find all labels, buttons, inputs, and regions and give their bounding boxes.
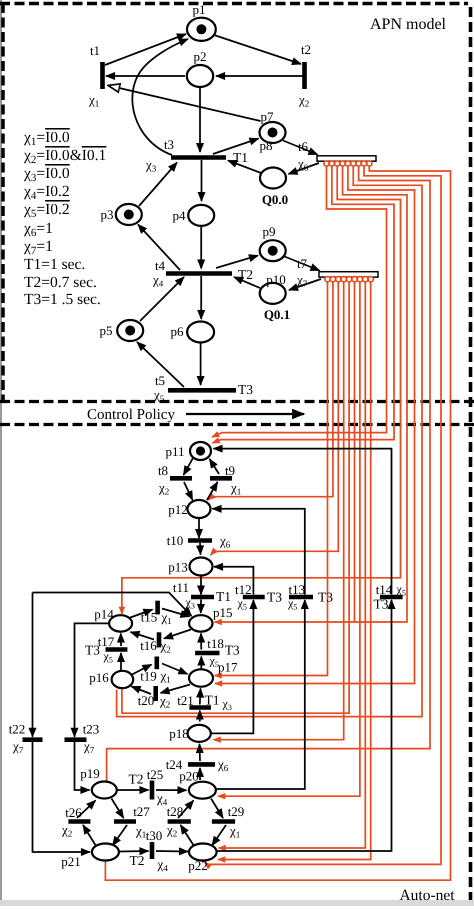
svg-text:p13: p13 [168,560,188,575]
svg-text:t10: t10 [167,533,184,548]
arc p14 to t15 [129,610,153,619]
svg-text:t16: t16 [140,638,157,653]
orange control wire from t7 output 5 [122,281,349,713]
svg-text:t29: t29 [228,804,245,819]
arc p14 to t23 [75,623,109,736]
place p9 [260,240,286,261]
parameter definitions text block [23,129,106,308]
transition t15 [155,601,160,615]
svg-text:t28: t28 [167,804,184,819]
orange control wire from t7 output 2 [208,281,333,500]
arc p13 to t11 [200,577,202,595]
svg-text:p16: p16 [89,670,109,685]
place p3 [116,204,142,225]
arc p20 to t29 [211,799,223,819]
place p8 [260,168,286,189]
svg-text:t6: t6 [298,139,309,154]
transition t22 [23,737,43,742]
transition t30 [150,842,155,859]
place p21 [92,844,119,861]
arc p6 to t5 [200,343,202,385]
transition t18 [195,651,219,656]
arc t28 to p20 [178,801,194,819]
svg-text:p20: p20 [179,769,199,784]
svg-text:p19: p19 [80,766,100,781]
arc p3 to t3 [139,163,177,207]
svg-text:T1=1 sec.: T1=1 sec. [24,256,85,273]
place p2 [187,65,213,87]
orange control wire from t7 output 3 [211,281,339,555]
arc p21 to t30 [120,850,149,853]
arc t23 to p19 [75,742,90,790]
place p17 [189,669,213,686]
arc t16 to p14 [131,632,155,640]
place p18 [188,725,211,742]
place p10 [260,283,286,304]
orange control wire from t6 output 9 [105,166,450,881]
transition t17 [106,647,128,652]
arc p17 to t18 [200,657,202,669]
transition t4 [166,271,232,276]
control policy dashed line upper [0,400,474,403]
svg-text:t4: t4 [155,258,166,273]
svg-text:χ6=1: χ6=1 [23,220,53,239]
arc t29 to p22 [212,825,226,846]
transition t28 [168,819,191,824]
arc t4 to p9 [216,256,258,269]
arc p1 to t2 [214,35,301,64]
transition t10 [188,538,212,543]
arc junction down to t22 [32,593,34,737]
svg-text:t26: t26 [65,805,82,820]
arc t24 to p18 [199,744,202,761]
transition t21 [189,705,211,710]
arc t3 to p1 curve [132,39,188,155]
arc t20 to p16 [132,687,152,695]
arc p12 to t10 [198,519,200,538]
place p12 [188,500,211,518]
place p14 [109,615,132,631]
arc p22 to t28 [181,825,195,846]
arc p2 to t1 [106,75,185,77]
orange control wire from t6 output 8 [205,166,442,865]
arc p15 to t16 [164,630,191,639]
svg-text:t3: t3 [164,137,174,152]
orange control wire from t7 output 8 [219,281,366,848]
place p7 [260,122,286,143]
svg-text:p15: p15 [213,605,233,620]
svg-text:p4: p4 [173,208,187,223]
transition t27 [114,819,136,824]
arc t26 to p19 [77,801,96,819]
svg-text:T3: T3 [85,643,100,658]
svg-text:t13: t13 [288,582,305,597]
control policy dashed line lower [0,423,474,426]
transition t1 [100,62,105,89]
transition t25 [150,781,155,800]
svg-text:t12: t12 [235,582,252,597]
svg-text:T1: T1 [216,589,231,604]
svg-text:T2=0.7 sec.: T2=0.7 sec. [24,274,97,291]
orange control wire from t7 output 1 [215,281,328,675]
arc t3 to p7 [213,139,259,155]
svg-text:t18: t18 [207,636,224,651]
svg-text:t30: t30 [146,828,163,843]
arc p9 to t7 [285,257,320,271]
svg-text:t20: t20 [138,693,155,708]
svg-text:t14: t14 [376,582,393,597]
arc t22 to p21 [33,742,91,852]
transition t3 [171,155,226,160]
arc t25 to p20 [156,789,187,791]
place p16 [112,671,134,688]
arc p7 to t1 inhibitor [109,86,261,122]
outer dashed border right [469,7,473,900]
svg-text:Q0.1: Q0.1 [264,307,290,322]
svg-text:p8: p8 [260,138,273,153]
svg-text:APN model: APN model [370,16,447,33]
svg-text:Q0.0: Q0.0 [262,192,288,207]
svg-text:p9: p9 [263,224,276,239]
svg-text:p1: p1 [193,2,206,17]
transition t8 [170,476,192,481]
svg-text:t22: t22 [9,722,26,737]
svg-text:T3=1 .5 sec.: T3=1 .5 sec. [24,291,101,308]
arc p17 to t20 [161,685,191,694]
transition t6 hollow bar [317,156,376,161]
figure gray bottom strip [0,900,474,906]
APN model dashed border top [0,2,468,6]
arc t9 to p11 [210,459,220,474]
arc p10 to t4 [234,277,260,288]
svg-text:p7: p7 [261,109,275,124]
arc p22 to t14 riser [217,600,392,851]
svg-text:t19: t19 [140,669,157,684]
svg-text:Control Policy: Control Policy [87,407,175,423]
svg-text:χ3=I0.0: χ3=I0.0 [23,165,70,184]
transition t19 [155,657,160,670]
arc t4 to p3 [138,225,180,271]
arc p20 to t13 riser [217,600,305,789]
arc t19 to p17 [162,664,188,675]
svg-text:p14: p14 [94,607,114,622]
arc t8 to p12 [184,482,193,500]
t7 output dots [325,277,330,282]
transition t2 [302,62,307,89]
orange control wire from t7 output 6 [354,281,356,622]
arc t5 to p5 [137,342,184,387]
arc p2 to t3 [199,88,201,152]
APN model dashed border left [1,3,5,401]
svg-text:t8: t8 [158,463,168,478]
place p19 [92,782,117,799]
svg-text:t1: t1 [90,43,100,58]
arc t18 to p15 [200,634,202,650]
svg-text:p18: p18 [169,726,189,741]
svg-text:T1: T1 [205,693,220,708]
svg-text:p2: p2 [194,49,207,64]
svg-text:χ7=1: χ7=1 [23,238,53,257]
orange control wire from t6 output 7 [107,166,430,781]
svg-text:T3: T3 [267,590,282,605]
place p6 [187,322,214,343]
svg-text:χ1=I0.0: χ1=I0.0 [23,129,70,148]
arc t14 to p11 riser [214,449,392,595]
svg-text:t21: t21 [177,693,194,708]
svg-text:T2: T2 [129,772,144,787]
arc p12 to t9 [207,482,218,500]
svg-text:p5: p5 [100,323,113,338]
transition t29 [212,819,235,824]
svg-text:t2: t2 [301,42,311,57]
arc t21 to p17 [199,689,202,705]
arc p19 to t25 [118,789,149,791]
arc t27 to p21 [113,825,128,846]
arc p20 to t24 [199,768,201,780]
transition t11 [191,595,214,600]
orange control wire from t7 output 7 [218,281,360,796]
orange control wire from t6 output 4 [215,166,408,623]
arc p16 to t19 [132,665,152,675]
arc p16 to t17 [120,653,122,670]
arc t2 to p2 [216,75,303,77]
svg-text:T2: T2 [130,853,145,868]
place p5 [117,320,143,341]
place p22 [189,844,217,861]
svg-text:p6: p6 [171,324,185,339]
orange control wire from t6 output 3 [122,166,401,615]
svg-text:p3: p3 [101,207,114,222]
svg-text:t9: t9 [225,463,235,478]
arc p5 to t4 [140,277,184,321]
svg-text:p21: p21 [61,854,81,869]
arc p18 to t21 [199,711,201,722]
svg-text:χ4=I0.2: χ4=I0.2 [23,183,70,202]
svg-text:t25: t25 [147,767,164,782]
place p13 [190,558,213,576]
place p4 [188,205,214,226]
orange control wire from t7 output 4 [214,281,344,740]
svg-text:T3: T3 [238,382,253,397]
orange control wire from t6 output 2 [213,166,395,444]
svg-text:t5: t5 [155,373,165,388]
arc t30 to p22 [156,850,188,853]
t6 output dots [324,161,329,166]
orange control wire from t7 output 9 [218,281,371,859]
svg-text:t15: t15 [141,610,158,625]
control policy arrow [186,413,304,415]
arc t3 to p4 [201,160,203,201]
svg-text:p12: p12 [168,502,188,517]
place p11 [190,442,211,460]
svg-text:Auto-net: Auto-net [399,887,455,904]
transition t14 [380,595,403,600]
place p1 [187,18,216,41]
arc t12 to p13 riser [214,567,253,595]
svg-text:t27: t27 [133,804,150,819]
arc p4 to t4 [200,226,202,269]
svg-text:t11: t11 [173,580,189,595]
transition t9 [210,476,232,481]
svg-text:p11: p11 [165,444,184,459]
transition t26 [68,819,90,824]
arc p8 to t3 [228,161,261,174]
arc t13 to p12 riser [213,509,305,595]
arc p18 to t12 riser [211,600,253,733]
arc t15 to p15 [162,609,190,617]
place p15 [189,615,212,631]
svg-text:χ2=I0.0&I0.1: χ2=I0.0&I0.1 [23,147,106,166]
arc t17 to p14 [120,634,122,647]
arc t4 to p6 [200,276,202,319]
arc t11 to p15 [200,600,202,614]
transition t24 [188,762,215,767]
transition t5 [168,388,236,393]
transition t12 [243,595,265,600]
transition t7 hollow bar [319,272,378,277]
transition t20 [153,686,158,701]
arc p7 to t6 [283,141,318,155]
arc p19 to t27 [112,799,124,819]
svg-text:t17: t17 [98,634,115,649]
arc t6 to p8 [289,163,320,174]
arc p21 to t26 [83,825,96,846]
svg-text:T3: T3 [225,643,240,658]
svg-text:p22: p22 [188,858,208,873]
figure gray left edge [0,0,2,904]
svg-text:T3: T3 [374,597,389,612]
svg-text:T3: T3 [318,590,333,605]
arc from left junction to p15 [33,593,192,617]
orange control wire from t6 output 6 [117,166,422,717]
arc t7 to p10 [289,279,321,290]
arc p11 to t8 [184,458,194,475]
transition t16 [157,632,162,647]
svg-text:p17: p17 [218,660,238,675]
place p20 [189,782,216,799]
transition t23 [65,737,87,742]
orange control wire from t6 output 5 [215,166,415,684]
arc t1 to p1 [105,34,186,65]
arc t10 to p13 [199,543,202,555]
svg-text:t23: t23 [83,722,100,737]
svg-text:p10: p10 [266,272,286,287]
svg-text:χ5=I0.2: χ5=I0.2 [23,201,70,220]
transition t13 [289,595,313,600]
orange control wire from t6 output 1 [212,166,387,438]
